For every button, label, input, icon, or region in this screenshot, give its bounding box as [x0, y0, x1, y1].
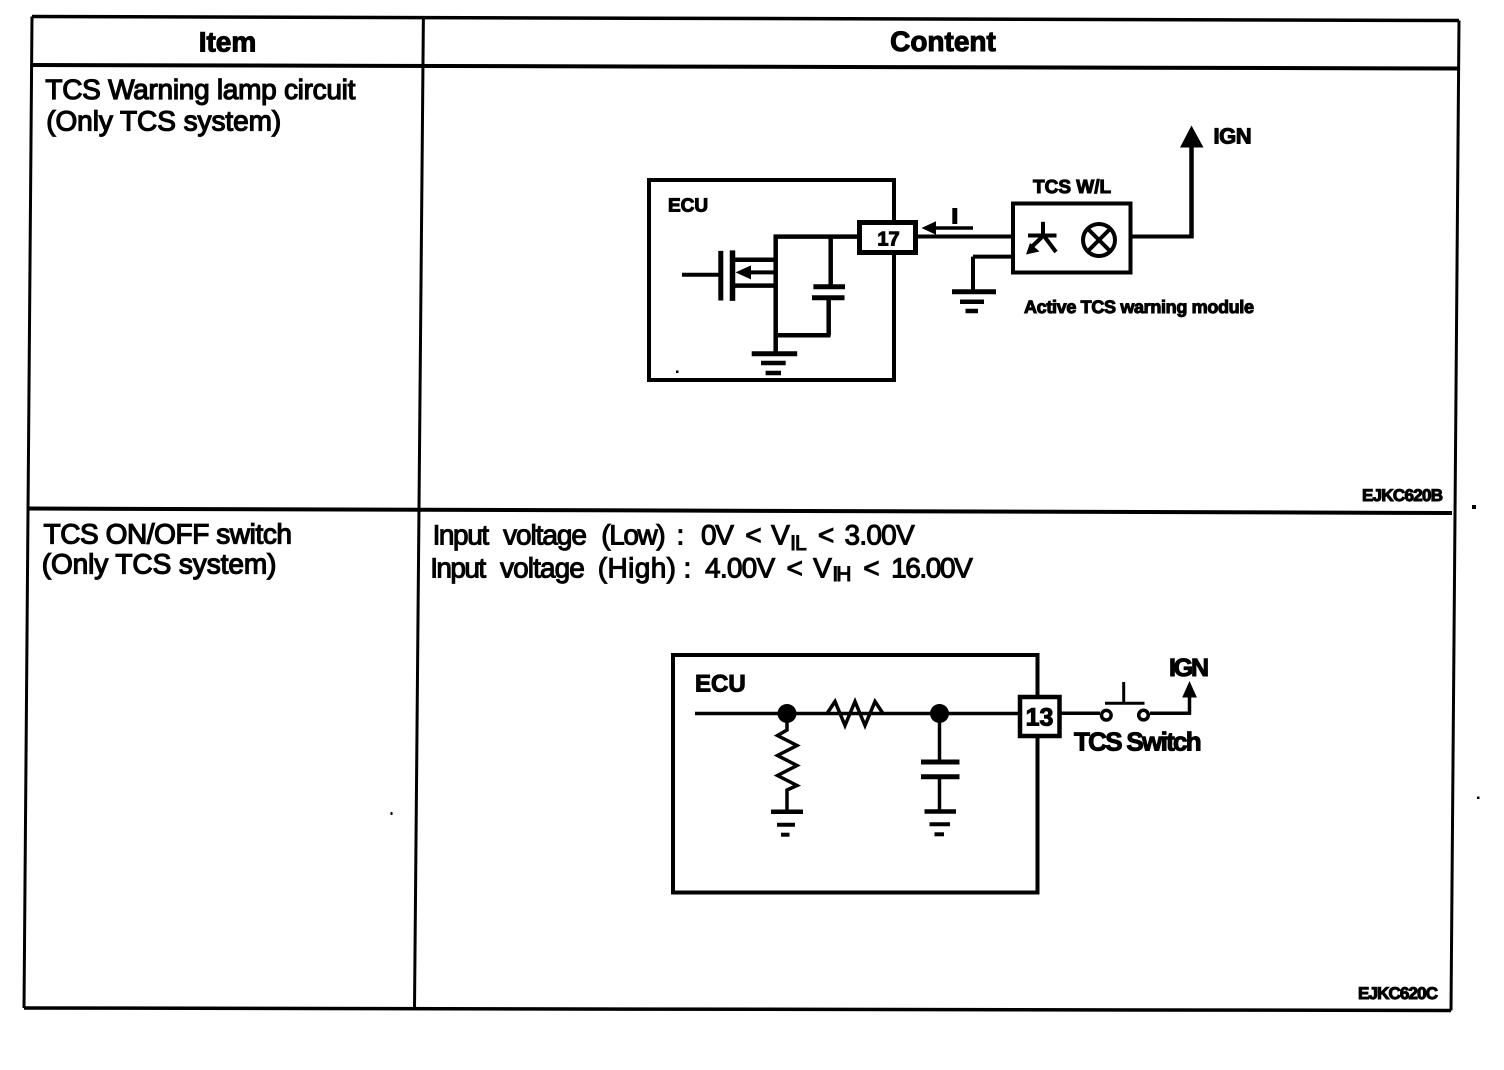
- svg-text:IL: IL: [790, 532, 807, 555]
- svg-text:3.00V: 3.00V: [845, 519, 916, 550]
- svg-text::: :: [684, 553, 692, 584]
- svg-text:voltage: voltage: [500, 553, 585, 584]
- svg-text:EJKC620C: EJKC620C: [1358, 984, 1438, 1003]
- svg-text:<: <: [818, 519, 834, 550]
- svg-text:Input: Input: [430, 553, 486, 584]
- svg-text:IGN: IGN: [1169, 654, 1209, 682]
- svg-text:Active TCS warning module: Active TCS warning module: [1024, 297, 1254, 317]
- svg-text:EJKC620B: EJKC620B: [1362, 486, 1443, 505]
- svg-text:<: <: [745, 519, 761, 550]
- svg-text:0V: 0V: [701, 519, 734, 550]
- svg-text:13: 13: [1026, 704, 1054, 732]
- svg-text:TCS ON/OFF switch: TCS ON/OFF switch: [44, 518, 293, 549]
- svg-text:Content: Content: [890, 26, 996, 57]
- svg-text:<: <: [787, 553, 803, 584]
- svg-text:V: V: [771, 519, 790, 550]
- svg-text:Input: Input: [433, 519, 490, 550]
- svg-text:TCS Warning lamp circuit: TCS Warning lamp circuit: [45, 74, 355, 105]
- svg-text:(High): (High): [598, 553, 676, 584]
- svg-text:(Low): (Low): [601, 519, 665, 550]
- svg-text:4.00V: 4.00V: [705, 553, 776, 584]
- svg-text:IH: IH: [832, 563, 851, 586]
- svg-text:16.00V: 16.00V: [891, 553, 973, 584]
- svg-text:IGN: IGN: [1214, 124, 1252, 149]
- svg-text:17: 17: [877, 228, 899, 250]
- svg-text:V: V: [813, 553, 832, 584]
- svg-text:TCS W/L: TCS W/L: [1033, 177, 1111, 198]
- svg-text:(Only TCS system): (Only TCS system): [46, 106, 281, 137]
- svg-text:Item: Item: [199, 26, 257, 57]
- svg-text:ECU: ECU: [668, 195, 708, 216]
- svg-text:TCS Switch: TCS Switch: [1074, 726, 1202, 756]
- svg-text::: :: [677, 519, 685, 550]
- svg-text:voltage: voltage: [503, 519, 587, 550]
- svg-text:<: <: [863, 553, 879, 584]
- svg-text:(Only TCS system): (Only TCS system): [42, 549, 277, 580]
- svg-text:ECU: ECU: [695, 671, 746, 698]
